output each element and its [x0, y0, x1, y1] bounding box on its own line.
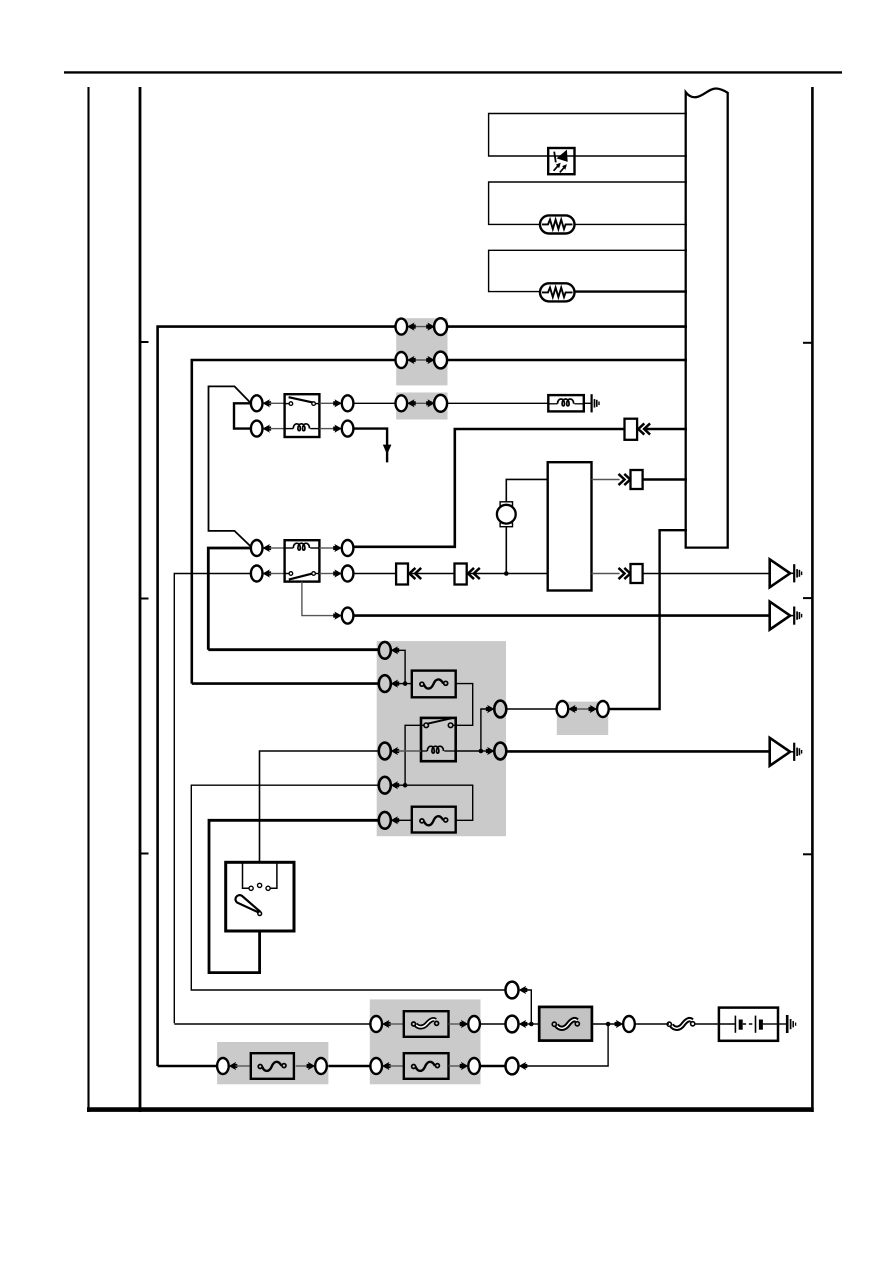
wire row2 right — [446, 359, 687, 362]
right border — [811, 87, 814, 1112]
relay2 pin2 oval — [251, 566, 263, 582]
wire block pin1 — [397, 650, 405, 683]
wire relay2 pin2 row — [174, 574, 251, 1024]
wire terminal A-B — [408, 573, 455, 575]
wire relay1 out2 down arrow — [353, 429, 387, 463]
block out B arrow — [486, 747, 495, 755]
ground amp 3 — [770, 738, 790, 766]
block pin5 arrow — [391, 816, 400, 824]
connector pair 4 — [557, 701, 609, 717]
ground amp 1 — [770, 559, 790, 587]
relay1 pin1 oval — [251, 395, 263, 411]
oval B1 — [506, 982, 519, 999]
left border tick 2 — [140, 598, 149, 600]
wire feed left fuse — [158, 1065, 218, 1068]
noise filter box — [548, 395, 584, 411]
relay2 out2 arrow — [333, 569, 342, 577]
left border tick 1 — [140, 341, 149, 343]
wire relay1 row1 to pair3 — [353, 402, 395, 404]
arrow B4 — [519, 1062, 528, 1070]
relay1 pin2 arrow — [263, 425, 272, 433]
breaker 2 wave — [420, 816, 448, 825]
wire to relay1 coil — [269, 428, 284, 430]
relay R2 box — [285, 540, 320, 581]
gray pad pairs 1-2 — [396, 318, 447, 385]
relay2 pin2 arrow — [263, 569, 272, 577]
left outer border — [87, 87, 89, 1112]
wire to ground amp 3 — [506, 750, 770, 753]
switch terminal stub right — [270, 862, 277, 888]
relay R1 contact — [285, 397, 320, 405]
wire B2 to oval — [480, 1023, 505, 1025]
key pivot — [258, 912, 262, 916]
battery box — [719, 1008, 778, 1041]
battery cells — [719, 1016, 778, 1033]
relay R2 coil — [285, 543, 320, 550]
wire loop2 top — [489, 182, 687, 224]
relay1 out2 arrow — [333, 425, 342, 433]
switch terminal stub left — [243, 862, 249, 888]
wire FL2 to battery — [695, 1023, 719, 1025]
junction dot pin4 — [403, 783, 408, 788]
wire relay2 out1 — [319, 547, 335, 549]
terminal box B — [455, 564, 467, 585]
relay1 pin2 oval — [251, 421, 263, 437]
wire relay1-relay2 link — [209, 386, 251, 546]
wire pin3 to coil — [397, 750, 421, 752]
terminal circle right — [266, 886, 270, 890]
block pin4 arrow — [391, 781, 400, 789]
wire relay2 out2 to terminals — [353, 573, 396, 575]
right border tick 3 — [803, 853, 812, 855]
wire feed pin4 — [191, 785, 506, 990]
junction dot switch out — [479, 749, 484, 754]
wire row1 right — [446, 325, 687, 328]
wire to relay2 contact — [269, 573, 284, 575]
wire feed pin2 — [192, 682, 379, 685]
relay2 common oval — [342, 608, 354, 624]
ground amp 2 — [770, 602, 790, 630]
right border tick 2 — [803, 597, 812, 599]
terminal box ECU out1 — [631, 470, 643, 489]
left border tick 3 — [140, 853, 149, 855]
wire loop2 bottom right — [575, 223, 688, 225]
ground comb amp1 — [790, 572, 794, 574]
block pin2 arrow — [391, 680, 400, 688]
wire relay2 out2 — [319, 573, 335, 575]
wire switch left — [405, 725, 421, 785]
relay2 out1 arrow — [333, 544, 342, 552]
relay1 out1 arrow — [333, 399, 342, 407]
terminal circle mid — [258, 883, 262, 887]
left inner border — [139, 87, 142, 1112]
wire pair4 to block — [506, 708, 556, 710]
connector pair 3 — [396, 395, 448, 412]
relay R1 coil — [285, 424, 320, 431]
block pin4 oval — [379, 777, 391, 794]
circuit breaker 2 box — [412, 807, 456, 833]
wire FL to oval — [592, 1023, 623, 1025]
wire left group to mid group — [327, 1065, 371, 1068]
relay2 pin1 arrow — [263, 544, 272, 552]
motor top wire — [506, 479, 547, 501]
switch contact — [421, 718, 456, 727]
terminal box row429 — [625, 419, 638, 440]
key lever — [235, 895, 260, 913]
wire loop1 top — [489, 114, 687, 157]
block pin3 arrow — [391, 747, 400, 755]
motor bottom wire — [505, 527, 507, 574]
noise filter coil — [548, 399, 584, 406]
ground comb amp3 — [790, 751, 794, 753]
wire to relay1 — [269, 402, 284, 404]
relay2 out2 oval — [342, 566, 354, 582]
chevrons row429 — [638, 423, 650, 434]
ECU box — [548, 462, 592, 590]
arrow B3 — [615, 1020, 624, 1028]
junction dot pin1/pin2 — [403, 681, 408, 686]
block pin1 oval — [379, 642, 391, 659]
chevrons ECU out2 — [619, 568, 631, 579]
block pin5 oval — [379, 812, 391, 829]
connector pair 1 — [396, 318, 448, 335]
bulb lamp 1 — [540, 215, 575, 233]
chevrons A — [409, 568, 421, 579]
wire filter to ground — [584, 402, 592, 404]
relay block pad — [377, 641, 506, 836]
oval B2 — [506, 1016, 519, 1033]
wire terminal to bus — [643, 478, 687, 481]
terminal box ECU out2 — [631, 564, 643, 583]
wire loop3 top — [489, 250, 687, 291]
wire battery to ground — [778, 1023, 786, 1025]
wire breaker1 to switch — [456, 684, 473, 726]
terminal circle left — [249, 886, 253, 890]
relay1 out1 oval — [342, 395, 354, 411]
wire to ground amp 2 — [353, 614, 769, 617]
ignition switch box — [226, 862, 294, 931]
junction dot motor — [504, 571, 509, 576]
wire pin4 to breaker2 — [397, 785, 472, 820]
block pin2 oval — [379, 675, 391, 692]
block out A oval — [494, 701, 506, 718]
circuit breaker 1 box — [412, 671, 456, 698]
relay2 common arrow — [333, 612, 342, 620]
switch coil — [421, 746, 456, 753]
wire row429 to relay2 — [353, 429, 624, 547]
wire to ground amp 1 — [643, 573, 770, 575]
breaker 1 wave — [420, 679, 448, 688]
wire loop3 bottom right — [575, 290, 688, 292]
arrow B1 — [519, 986, 528, 994]
wire row B1 corner — [526, 990, 531, 1024]
wire pair3 to noise filter — [446, 402, 548, 404]
wire to relay2 coil — [269, 547, 284, 549]
wire terminal B to ECU — [467, 573, 548, 575]
ground comb filter — [592, 394, 599, 412]
junction dot FL — [606, 1022, 611, 1027]
relay R1 box — [285, 394, 320, 437]
fusible link 2 wave — [667, 1020, 695, 1029]
gray pad mid fuses — [370, 999, 481, 1084]
fuse row B3 — [370, 1053, 480, 1079]
chevrons ECU out1 — [619, 474, 631, 485]
oval B3 — [623, 1016, 635, 1032]
wire row2 left — [192, 360, 396, 684]
relay2 pin1 oval — [251, 540, 263, 556]
relay1 out2 oval — [342, 421, 354, 437]
wire relay2 pin1 feed — [208, 548, 251, 650]
wire bus to connector row429 — [645, 428, 687, 431]
wire ECU out2 — [592, 573, 620, 575]
wire feed pin1 — [208, 648, 379, 651]
wire to FL2 — [635, 1023, 669, 1025]
wire relay1 out2 — [319, 428, 335, 430]
motor M — [497, 502, 516, 527]
light sensor box — [548, 148, 574, 174]
right border tick 1 — [803, 342, 812, 344]
wire B4 to fuse row3 — [480, 1065, 505, 1068]
wire bus tap — [609, 530, 687, 709]
gray pad left fuse — [217, 1042, 328, 1084]
ground comb battery — [787, 1015, 795, 1033]
down arrowhead — [383, 445, 392, 455]
wire pin5 to breaker2 — [397, 819, 411, 821]
bulb lamp 2 — [540, 283, 575, 301]
wire B3 down — [527, 1024, 608, 1066]
FL wave — [552, 1020, 579, 1029]
top rule — [64, 71, 842, 73]
bottom rule — [87, 1107, 814, 1112]
block pin1 arrow — [391, 646, 400, 654]
photo diode — [554, 150, 568, 173]
connector pair 2 — [396, 352, 448, 369]
wiper switch box — [421, 718, 456, 761]
relay R2 contact — [285, 572, 320, 580]
ground comb amp2 — [790, 615, 794, 617]
wire feed pin5 — [209, 820, 379, 972]
fuse row left — [217, 1053, 327, 1079]
wire relay2 common down — [302, 582, 335, 616]
relay2 out1 oval — [342, 540, 354, 556]
wire switch out up — [456, 709, 488, 751]
block out B oval — [494, 743, 506, 760]
relay1 pin1 arrow — [263, 399, 272, 407]
wire relay1 out1 — [319, 402, 335, 404]
chevrons B — [468, 568, 480, 579]
wire row1 left — [158, 327, 396, 1066]
gray pad pair 4 — [557, 702, 608, 735]
wire B2 to FL — [527, 1023, 539, 1025]
terminal box A — [396, 564, 408, 585]
fusible link box — [539, 1007, 592, 1041]
wire to block out B — [481, 750, 488, 752]
wire ECU out1 — [592, 479, 620, 481]
wire feed pin3 — [260, 751, 380, 883]
junction block bus J/B — [686, 88, 728, 547]
wire relay1 left bracket — [234, 403, 251, 428]
block pin3 oval — [379, 743, 391, 760]
junction dot B1 — [529, 1022, 534, 1027]
block out A arrow — [486, 705, 495, 713]
wire row B2 left — [174, 1023, 370, 1025]
oval B4 — [506, 1058, 519, 1075]
fuse row B2 — [370, 1011, 480, 1037]
wire pin2 to breaker — [397, 683, 411, 685]
gray pad pair 3 — [396, 393, 447, 420]
wire through sensor — [548, 155, 574, 157]
arrow B2 — [519, 1020, 528, 1028]
